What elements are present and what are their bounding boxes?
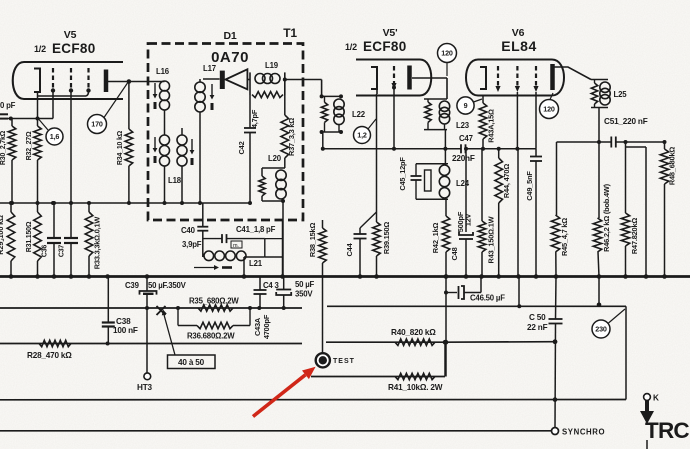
svg-text:4,7pF: 4,7pF [250, 109, 259, 128]
svg-text:ECF80: ECF80 [52, 41, 96, 56]
svg-text:R39.150Ω: R39.150Ω [382, 222, 391, 255]
svg-text:120: 120 [543, 105, 555, 114]
svg-text:L23: L23 [456, 121, 470, 130]
svg-text:0A70: 0A70 [211, 49, 249, 66]
svg-text:1/2: 1/2 [34, 44, 46, 54]
svg-text:120: 120 [441, 49, 453, 58]
svg-text:C42: C42 [237, 141, 246, 154]
svg-text:L25: L25 [614, 90, 628, 99]
svg-text:1/2: 1/2 [345, 42, 357, 52]
svg-text:C 50: C 50 [529, 313, 546, 322]
svg-text:R43A,15Ω: R43A,15Ω [487, 109, 496, 143]
svg-text:R46.2,2 kΩ (bob.4W): R46.2,2 kΩ (bob.4W) [602, 183, 611, 252]
svg-text:1,6: 1,6 [50, 132, 60, 141]
svg-text:C40: C40 [181, 226, 196, 235]
svg-text:V5': V5' [383, 27, 398, 39]
svg-text:C38: C38 [116, 317, 131, 326]
svg-text:170: 170 [91, 120, 103, 129]
svg-text:V5: V5 [64, 29, 77, 41]
svg-text:L16: L16 [156, 67, 170, 76]
svg-text:R38_15kΩ: R38_15kΩ [308, 223, 317, 258]
svg-text:HT3: HT3 [137, 383, 153, 392]
svg-text:100 nF: 100 nF [113, 326, 138, 335]
svg-text:C46.50 µF: C46.50 µF [470, 294, 505, 303]
svg-text:R42_1kΩ: R42_1kΩ [431, 223, 440, 254]
svg-text:R44, 470Ω: R44, 470Ω [502, 164, 511, 198]
svg-text:C45_12pF: C45_12pF [398, 157, 407, 191]
svg-text:C44: C44 [345, 242, 354, 256]
svg-text:EL84: EL84 [501, 38, 536, 54]
svg-text:ECF80: ECF80 [363, 39, 407, 54]
svg-text:R47.820kΩ: R47.820kΩ [630, 218, 639, 254]
svg-text:L20: L20 [268, 154, 282, 163]
svg-text:L22: L22 [352, 110, 366, 119]
svg-text:9: 9 [464, 101, 468, 110]
svg-text:50 µF: 50 µF [295, 280, 315, 289]
svg-text:1,2: 1,2 [357, 131, 367, 140]
svg-text:40 à 50: 40 à 50 [178, 358, 205, 367]
svg-text:R33.3,3kΩ.0,1W: R33.3,3kΩ.0,1W [93, 217, 102, 270]
svg-text:R35_680Ω.2W: R35_680Ω.2W [189, 297, 239, 306]
svg-text:C37: C37 [59, 245, 66, 258]
svg-text:R32_27Ω: R32_27Ω [26, 131, 33, 160]
svg-text:TEST: TEST [333, 358, 355, 365]
svg-text:L24: L24 [456, 179, 470, 188]
svg-text:C36: C36 [42, 245, 49, 258]
svg-text:C39: C39 [125, 281, 140, 290]
svg-text:4700pF: 4700pF [262, 314, 271, 339]
svg-text:R28_470 kΩ: R28_470 kΩ [27, 351, 72, 360]
svg-text:R41_10kΩ. 2W: R41_10kΩ. 2W [388, 383, 443, 392]
svg-text:L18: L18 [168, 176, 182, 185]
svg-text:R45_4,7 kΩ: R45_4,7 kΩ [560, 218, 569, 256]
svg-text:C49_5nF: C49_5nF [525, 171, 534, 201]
svg-text:230: 230 [595, 325, 607, 334]
svg-text:K: K [653, 394, 659, 403]
svg-text:C51_220 nF: C51_220 nF [604, 117, 648, 126]
svg-text:350V: 350V [295, 290, 313, 299]
svg-text:0 pF: 0 pF [0, 101, 16, 110]
svg-text:220hF: 220hF [452, 154, 475, 163]
svg-text:D1: D1 [223, 30, 236, 42]
svg-text:22 nF: 22 nF [527, 323, 548, 332]
svg-text:C43A: C43A [253, 317, 262, 336]
svg-text:R29⌟100 kΩ: R29⌟100 kΩ [0, 215, 5, 255]
svg-text:L17: L17 [203, 64, 216, 73]
svg-text:R40_820 kΩ: R40_820 kΩ [391, 328, 436, 337]
svg-text:L19: L19 [265, 61, 279, 70]
svg-text:3,9pF: 3,9pF [182, 240, 202, 249]
svg-text:m.: m. [233, 243, 239, 249]
svg-text:R34_10 kΩ: R34_10 kΩ [117, 130, 124, 165]
svg-text:R48_680kΩ: R48_680kΩ [668, 147, 677, 186]
svg-text:TRC: TRC [645, 418, 689, 443]
svg-text:R43_150Ω.1W: R43_150Ω.1W [487, 216, 496, 263]
svg-text:SYNCHRO: SYNCHRO [562, 428, 605, 437]
svg-text:R31.150Ω: R31.150Ω [26, 221, 33, 252]
svg-text:C41_1,8 pF: C41_1,8 pF [236, 225, 276, 234]
svg-text:R37_3,3 kΩ: R37_3,3 kΩ [287, 118, 296, 156]
svg-text:R30_2,7kΩ: R30_2,7kΩ [0, 130, 7, 165]
svg-text:C48: C48 [450, 247, 459, 260]
svg-text:12V: 12V [464, 213, 473, 226]
svg-text:50 µF.350V: 50 µF.350V [148, 281, 187, 290]
svg-text:L21: L21 [249, 259, 263, 268]
svg-text:R36.680Ω.2W: R36.680Ω.2W [187, 332, 235, 341]
svg-text:C47: C47 [459, 134, 473, 143]
svg-text:T1: T1 [283, 26, 297, 40]
